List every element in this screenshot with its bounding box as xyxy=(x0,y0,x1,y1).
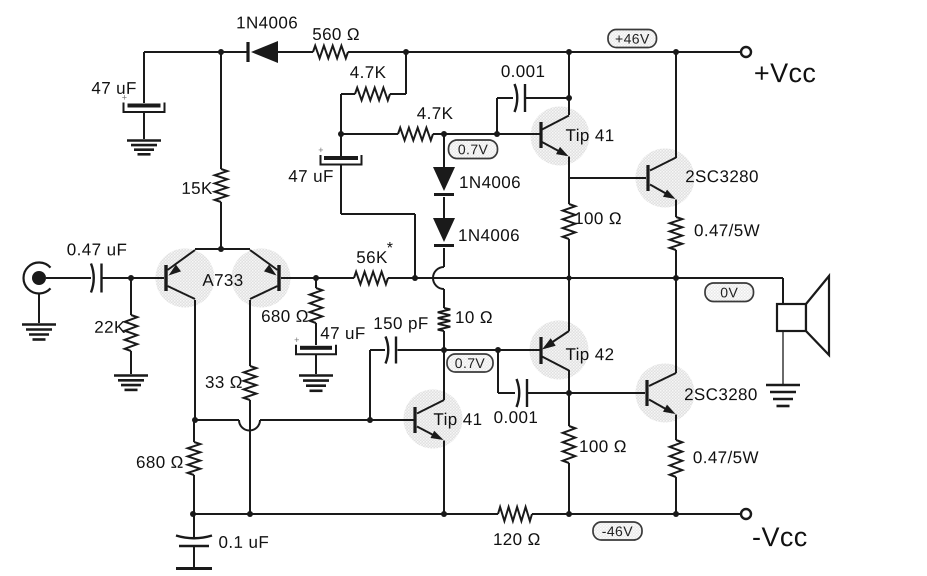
svg-text:560 Ω: 560 Ω xyxy=(312,25,360,44)
svg-text:4.7K: 4.7K xyxy=(417,104,454,123)
svg-text:+46V: +46V xyxy=(615,31,650,47)
svg-text:56K: 56K xyxy=(356,248,388,267)
svg-text:+: + xyxy=(294,335,300,345)
svg-text:1N4006: 1N4006 xyxy=(458,226,520,245)
svg-text:1N4006: 1N4006 xyxy=(236,13,298,32)
svg-text:680 Ω: 680 Ω xyxy=(136,453,184,472)
svg-text:0.7V: 0.7V xyxy=(458,141,489,157)
svg-text:0.47 uF: 0.47 uF xyxy=(67,240,127,259)
svg-text:150 pF: 150 pF xyxy=(373,314,428,333)
svg-text:*: * xyxy=(387,240,394,257)
svg-text:1N4006: 1N4006 xyxy=(459,173,521,192)
svg-text:Tip 41: Tip 41 xyxy=(566,126,615,145)
svg-text:2SC3280: 2SC3280 xyxy=(685,167,759,186)
svg-text:0.1 uF: 0.1 uF xyxy=(219,533,270,552)
svg-text:Tip 42: Tip 42 xyxy=(565,345,614,364)
svg-text:10 Ω: 10 Ω xyxy=(455,308,493,327)
svg-text:100 Ω: 100 Ω xyxy=(574,209,622,228)
svg-text:47 uF: 47 uF xyxy=(288,167,333,186)
svg-text:-46V: -46V xyxy=(602,523,633,539)
svg-text:4.7K: 4.7K xyxy=(350,63,387,82)
svg-text:15K: 15K xyxy=(181,179,213,198)
svg-text:2SC3280: 2SC3280 xyxy=(684,385,758,404)
svg-text:+: + xyxy=(318,145,324,155)
svg-text:0V: 0V xyxy=(720,284,738,300)
svg-text:120 Ω: 120 Ω xyxy=(493,530,541,549)
svg-text:0.47/5W: 0.47/5W xyxy=(693,448,759,467)
svg-text:0.7V: 0.7V xyxy=(455,355,486,371)
svg-text:-Vcc: -Vcc xyxy=(752,522,808,552)
svg-text:33 Ω: 33 Ω xyxy=(205,373,243,392)
svg-text:+Vcc: +Vcc xyxy=(754,58,816,88)
svg-text:0.47/5W: 0.47/5W xyxy=(694,221,760,240)
svg-text:0.001: 0.001 xyxy=(494,408,539,427)
svg-text:47 uF: 47 uF xyxy=(320,324,365,343)
svg-text:47 uF: 47 uF xyxy=(91,79,136,98)
svg-text:Tip 41: Tip 41 xyxy=(433,410,482,429)
svg-text:A733: A733 xyxy=(202,271,243,290)
svg-text:100 Ω: 100 Ω xyxy=(579,437,627,456)
svg-text:680 Ω: 680 Ω xyxy=(261,307,309,326)
svg-text:0.001: 0.001 xyxy=(501,62,546,81)
svg-text:22K: 22K xyxy=(94,318,126,337)
